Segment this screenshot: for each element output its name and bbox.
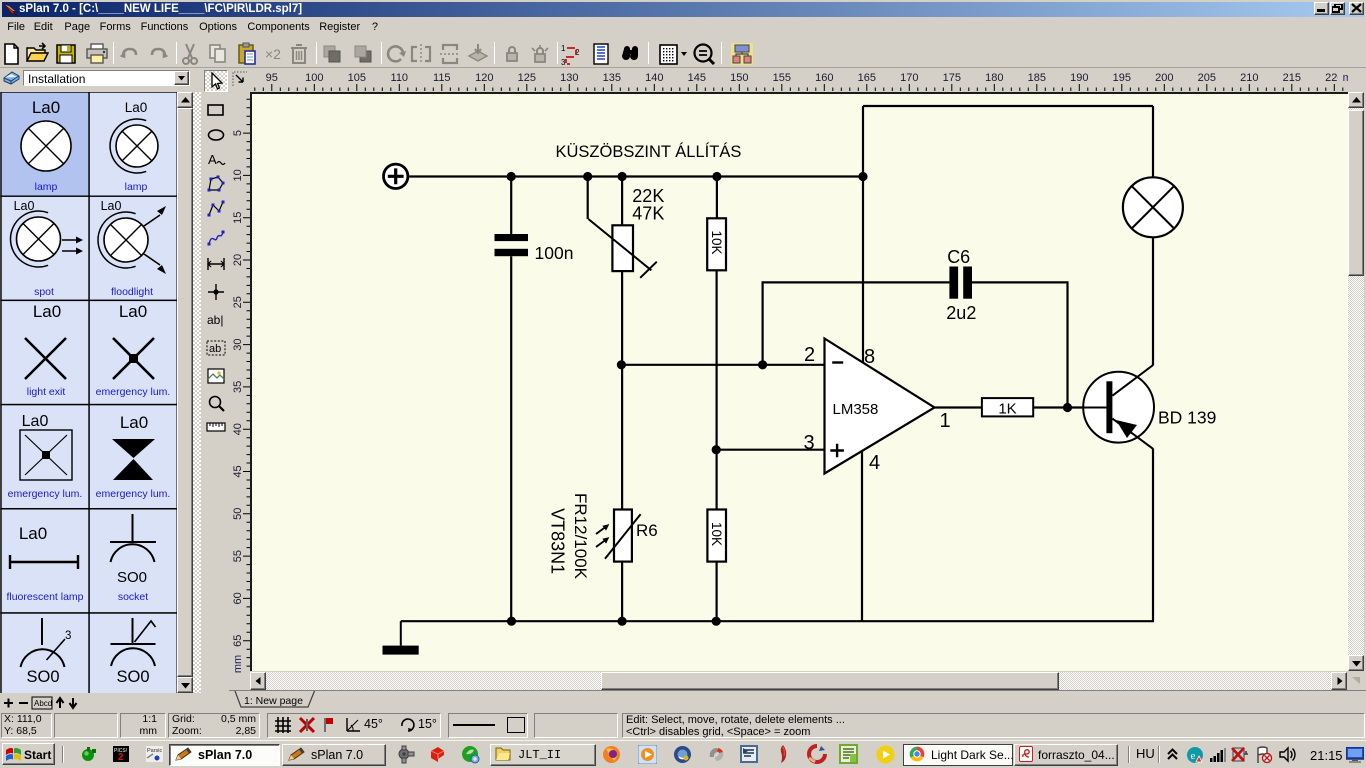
svg-text:215: 215 [1283,72,1301,84]
svg-text:15: 15 [232,212,244,224]
label KUSZOBSZINT ALLITAS [555,142,741,161]
wire op-amp pin 2 input [621,363,824,365]
svg-text:lamp: lamp [35,181,58,193]
wire op-amp pin 4 to ground rail [860,449,862,621]
svg-text:8: 8 [864,346,875,368]
value label 100n [534,243,573,263]
wire 1K to transistor base [1033,406,1107,408]
svg-text:2u2: 2u2 [946,303,976,323]
svg-text:ab: ab [209,343,221,355]
svg-text:105: 105 [348,72,366,84]
svg-text:×2: ×2 [265,46,281,62]
svg-text:30: 30 [232,338,244,350]
svg-text:3: 3 [803,432,814,454]
svg-text:La0: La0 [19,524,47,543]
svg-text:socket: socket [118,591,148,603]
svg-text:5: 5 [232,130,244,136]
svg-text:185: 185 [1028,72,1046,84]
svg-text:A: A [208,152,217,167]
svg-text:130: 130 [560,72,578,84]
pin number 8 [864,346,875,368]
svg-text:100n: 100n [534,243,573,263]
pin number 4 [869,452,880,474]
svg-text:4: 4 [869,452,880,474]
svg-text:2: 2 [804,344,815,366]
svg-text:1K: 1K [998,400,1016,417]
svg-text:La0: La0 [101,199,122,213]
svg-text:La0: La0 [33,302,61,321]
junction 100n / ground rail [506,616,515,625]
svg-text:115: 115 [433,72,451,84]
svg-text:160: 160 [815,72,833,84]
value label 10K upper [709,230,724,254]
svg-text:FR12/100K: FR12/100K [571,493,590,580]
junction C6 left / pin 2 net [758,360,767,369]
svg-text:1: New page: 1: New page [244,695,303,707]
wire V+ down to op-amp pin 8 [861,106,863,365]
svg-text:60: 60 [232,592,244,604]
svg-text:180: 180 [985,72,1003,84]
pin number 1 [939,410,950,432]
svg-text:25: 25 [232,296,244,308]
svg-text:Parsic: Parsic [147,748,163,754]
reference label R6 [636,521,658,540]
wire top rail y105.5 [863,104,1153,106]
svg-text:SO0: SO0 [117,569,147,586]
svg-text:fluorescent lamp: fluorescent lamp [6,591,83,603]
junction V+ rail / supply drop [858,171,867,180]
svg-text:200: 200 [1155,72,1173,84]
svg-text:95: 95 [266,72,278,84]
junction R1 top / V+ rail [712,171,721,180]
junction R1-R3 / pin 3 net [711,445,720,454]
svg-text:145: 145 [688,72,706,84]
svg-text:195: 195 [1113,72,1131,84]
svg-text:165: 165 [858,72,876,84]
svg-text:1: 1 [939,410,950,432]
value label 10K lower [709,522,724,546]
svg-text:50: 50 [232,508,244,520]
svg-text:3: 3 [65,630,71,642]
junction pot bottom / pin 2 net [616,360,625,369]
pin number 2 [804,344,815,366]
wire lamp drop [1151,106,1153,178]
svg-text:La0: La0 [119,302,147,321]
svg-text:155: 155 [773,72,791,84]
resistor R3 10K lower [707,509,726,561]
svg-text:La0: La0 [32,98,60,117]
svg-text:emergency lum.: emergency lum. [8,488,83,500]
svg-text:210: 210 [1240,72,1258,84]
value label 22K 47K [632,186,664,224]
svg-text:135: 135 [603,72,621,84]
svg-text:lamp: lamp [125,181,148,193]
svg-text:La0: La0 [22,413,49,430]
resistor R2 1K [981,398,1032,417]
capacitor C6 [949,266,972,298]
wire emitter to ground rail [1151,448,1153,621]
svg-text:mm: mm [232,655,244,673]
svg-text:100: 100 [305,72,323,84]
svg-text:20: 20 [232,254,244,266]
svg-text:10: 10 [232,169,244,181]
transistor Q1 BD 139 [1082,365,1154,449]
pin number 3 [803,432,814,454]
svg-text:SO0: SO0 [116,668,149,686]
junction pot top / V+ rail [617,171,626,180]
svg-text:40: 40 [232,423,244,435]
junction pot wiper / V+ rail [583,171,592,180]
value label BD 139 [1158,407,1216,427]
wire C6 left leg [762,282,949,364]
svg-text:47K: 47K [632,203,664,223]
svg-text:light exit: light exit [27,386,66,398]
svg-text:45: 45 [232,465,244,477]
power terminal + [383,164,407,188]
svg-text:10K: 10K [709,230,724,254]
svg-text:SO0: SO0 [26,668,59,686]
svg-text:190: 190 [1070,72,1088,84]
svg-text:La0: La0 [14,199,35,213]
svg-text:spot: spot [34,286,54,298]
svg-text:VT83N1: VT83N1 [547,508,567,574]
wire 100n branch [510,176,512,621]
svg-text:120: 120 [475,72,493,84]
svg-text:e: e [1191,750,1196,762]
wire 10K divider branch [715,176,718,621]
wire op-amp output pin 1 [934,406,981,408]
svg-text:175: 175 [943,72,961,84]
wire potentiometer wiper [586,176,588,219]
ground symbol [382,621,418,654]
wire main supply rail y176 [409,175,863,177]
svg-text:mm: mm [1343,72,1348,84]
svg-text:KÜSZÖBSZINT ÁLLÍTÁS: KÜSZÖBSZINT ÁLLÍTÁS [555,142,741,161]
svg-text:205: 205 [1198,72,1216,84]
photoresistor R6 [596,509,641,561]
svg-text:170: 170 [900,72,918,84]
wire C6 right leg to output node [972,282,1068,407]
svg-text:150: 150 [730,72,748,84]
junction 100n / V+ rail [506,171,515,180]
svg-text:R6: R6 [636,521,658,540]
svg-text:35: 35 [232,381,244,393]
wire ground rail y620.7 [400,620,1153,622]
svg-text:65: 65 [232,635,244,647]
wire lamp to collector [1151,237,1153,365]
svg-text:ab|: ab| [207,313,223,327]
svg-text:C6: C6 [947,247,970,267]
op-amp U1 LM358 [824,338,934,473]
svg-text:BD 139: BD 139 [1158,407,1216,427]
svg-text:1: 1 [561,44,566,53]
svg-text:emergency lum.: emergency lum. [96,386,171,398]
svg-text:140: 140 [645,72,663,84]
capacitor C2 100n [494,234,528,256]
svg-text:125: 125 [518,72,536,84]
value label C6 2u2 [946,247,976,323]
lamp output load [1122,177,1182,237]
value label FR12/100K VT83N1 [547,493,590,580]
junction R3 / ground rail [711,616,720,625]
svg-text:10K: 10K [709,522,724,546]
wire pot body branch [620,176,622,621]
potentiometer P1 [588,219,656,278]
junction output node / C6 right [1062,402,1071,411]
svg-text:La0: La0 [120,413,148,432]
svg-text:LM358: LM358 [832,401,878,418]
junction R6 / ground rail [617,616,626,625]
svg-text:55: 55 [232,550,244,562]
resistor R1 10K upper [707,218,726,270]
svg-text:emergency lum.: emergency lum. [96,488,171,500]
svg-text:110: 110 [391,72,409,84]
svg-text:La0: La0 [125,100,148,115]
svg-text:floodlight: floodlight [111,286,153,298]
svg-text:2: 2 [118,752,124,762]
value label LM358 [832,401,878,418]
wire op-amp pin 3 input [716,448,824,450]
svg-text:Abcd: Abcd [34,699,52,708]
